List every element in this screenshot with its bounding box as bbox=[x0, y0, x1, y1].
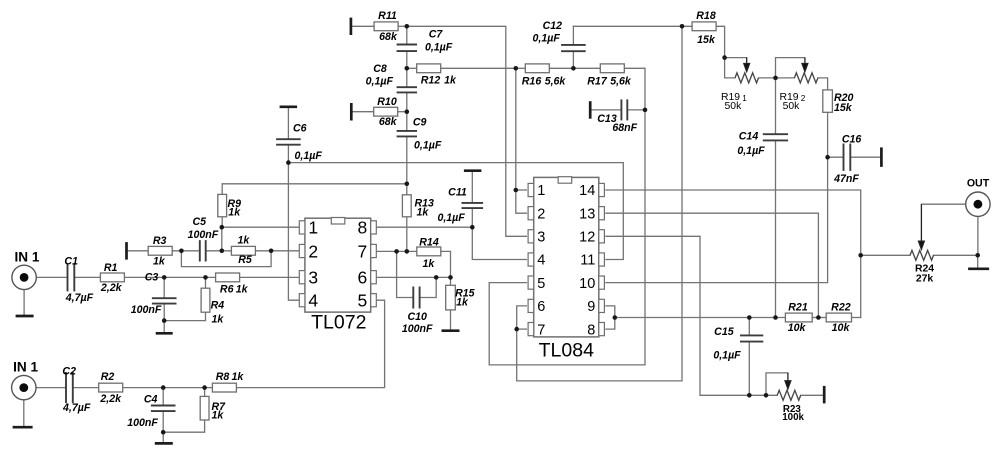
svg-text:6: 6 bbox=[537, 299, 545, 315]
svg-text:C10: C10 bbox=[407, 311, 427, 323]
svg-text:0,1µF: 0,1µF bbox=[295, 150, 323, 162]
svg-text:1k: 1k bbox=[212, 313, 225, 325]
svg-text:R1: R1 bbox=[104, 262, 118, 274]
svg-text:1k: 1k bbox=[236, 283, 249, 295]
svg-text:4: 4 bbox=[537, 253, 545, 269]
svg-text:0,1µF: 0,1µF bbox=[366, 76, 394, 88]
svg-text:7: 7 bbox=[357, 241, 367, 261]
svg-text:2: 2 bbox=[537, 206, 545, 222]
svg-text:C9: C9 bbox=[413, 117, 427, 129]
svg-text:2,2k: 2,2k bbox=[100, 282, 123, 294]
svg-text:R5: R5 bbox=[238, 254, 253, 266]
svg-text:R2: R2 bbox=[101, 371, 115, 383]
svg-text:1k: 1k bbox=[212, 410, 225, 422]
svg-text:1: 1 bbox=[742, 94, 747, 103]
svg-text:IN 1: IN 1 bbox=[15, 250, 40, 265]
svg-text:TL084: TL084 bbox=[539, 339, 594, 361]
svg-text:50k: 50k bbox=[725, 101, 743, 112]
svg-text:8: 8 bbox=[587, 322, 595, 338]
svg-text:1k: 1k bbox=[417, 207, 430, 219]
svg-text:1: 1 bbox=[308, 218, 318, 238]
svg-text:8: 8 bbox=[357, 218, 367, 238]
svg-text:5,6k: 5,6k bbox=[545, 75, 567, 87]
svg-text:1k: 1k bbox=[456, 296, 469, 308]
svg-text:R8: R8 bbox=[216, 371, 230, 383]
svg-text:15k: 15k bbox=[697, 34, 716, 46]
svg-text:1: 1 bbox=[537, 183, 545, 199]
svg-text:IN 1: IN 1 bbox=[13, 359, 38, 374]
svg-text:50k: 50k bbox=[783, 101, 801, 112]
svg-text:1k: 1k bbox=[232, 371, 245, 383]
svg-text:C3: C3 bbox=[145, 271, 159, 283]
svg-text:OUT: OUT bbox=[967, 177, 990, 189]
svg-text:1k: 1k bbox=[238, 234, 251, 246]
svg-text:C4: C4 bbox=[144, 393, 158, 405]
svg-text:0,1µF: 0,1µF bbox=[713, 349, 741, 361]
svg-text:0,1µF: 0,1µF bbox=[437, 212, 465, 224]
svg-text:R18: R18 bbox=[696, 10, 716, 22]
svg-text:100nF: 100nF bbox=[131, 304, 162, 316]
svg-text:C11: C11 bbox=[448, 187, 467, 199]
svg-text:68k: 68k bbox=[379, 31, 398, 43]
svg-text:C15: C15 bbox=[714, 326, 735, 338]
svg-text:100nF: 100nF bbox=[402, 323, 433, 335]
svg-text:0,1µF: 0,1µF bbox=[737, 145, 765, 157]
svg-text:4,7µF: 4,7µF bbox=[62, 402, 91, 414]
svg-text:3: 3 bbox=[537, 230, 545, 246]
svg-text:1k: 1k bbox=[153, 256, 166, 268]
svg-text:5,6k: 5,6k bbox=[610, 75, 632, 87]
svg-text:R6: R6 bbox=[220, 283, 234, 295]
svg-text:R14: R14 bbox=[419, 236, 439, 248]
svg-text:C14: C14 bbox=[739, 130, 759, 142]
svg-text:4: 4 bbox=[308, 291, 318, 311]
svg-text:13: 13 bbox=[579, 206, 595, 222]
svg-text:9: 9 bbox=[587, 299, 595, 315]
svg-text:5: 5 bbox=[537, 276, 545, 292]
svg-text:R12: R12 bbox=[421, 74, 441, 86]
svg-text:R4: R4 bbox=[211, 300, 225, 312]
svg-text:10: 10 bbox=[579, 276, 595, 292]
svg-text:15k: 15k bbox=[834, 102, 853, 114]
svg-text:R21: R21 bbox=[788, 302, 808, 314]
svg-text:4,7µF: 4,7µF bbox=[65, 292, 94, 304]
svg-text:27k: 27k bbox=[916, 273, 934, 284]
svg-text:68k: 68k bbox=[379, 116, 398, 128]
svg-text:R16: R16 bbox=[522, 75, 542, 87]
svg-text:0,1µF: 0,1µF bbox=[414, 140, 442, 152]
svg-text:C12: C12 bbox=[543, 20, 563, 32]
svg-text:1k: 1k bbox=[228, 207, 241, 219]
svg-text:C1: C1 bbox=[64, 256, 78, 268]
svg-text:C8: C8 bbox=[373, 63, 387, 75]
svg-text:11: 11 bbox=[580, 253, 595, 269]
svg-text:5: 5 bbox=[357, 291, 367, 311]
svg-text:3: 3 bbox=[308, 268, 318, 288]
svg-text:2: 2 bbox=[801, 94, 806, 103]
svg-text:TL072: TL072 bbox=[311, 312, 366, 334]
svg-text:1k: 1k bbox=[423, 258, 436, 270]
svg-text:R22: R22 bbox=[831, 302, 851, 314]
svg-text:6: 6 bbox=[357, 268, 367, 288]
svg-text:14: 14 bbox=[579, 183, 595, 199]
svg-text:2: 2 bbox=[308, 241, 318, 261]
svg-text:100nF: 100nF bbox=[188, 229, 219, 241]
svg-text:10k: 10k bbox=[788, 322, 807, 334]
svg-text:0,1µF: 0,1µF bbox=[533, 33, 561, 45]
svg-text:C6: C6 bbox=[293, 122, 307, 134]
svg-text:C16: C16 bbox=[842, 134, 862, 146]
svg-text:7: 7 bbox=[537, 322, 545, 338]
svg-text:100nF: 100nF bbox=[127, 417, 158, 429]
svg-text:C7: C7 bbox=[429, 29, 444, 41]
svg-text:1k: 1k bbox=[444, 74, 457, 86]
svg-text:100k: 100k bbox=[782, 412, 804, 423]
svg-text:R11: R11 bbox=[378, 10, 397, 22]
svg-text:R10: R10 bbox=[377, 96, 397, 108]
svg-text:10k: 10k bbox=[832, 322, 851, 334]
svg-text:12: 12 bbox=[579, 230, 595, 246]
svg-text:47nF: 47nF bbox=[833, 173, 859, 185]
svg-text:2,2k: 2,2k bbox=[99, 393, 122, 405]
svg-text:68nF: 68nF bbox=[612, 122, 637, 134]
svg-text:C5: C5 bbox=[193, 216, 208, 228]
svg-text:R17: R17 bbox=[587, 75, 608, 87]
svg-text:0,1µF: 0,1µF bbox=[425, 41, 453, 53]
svg-text:C2: C2 bbox=[62, 365, 76, 377]
svg-text:R3: R3 bbox=[153, 235, 167, 247]
